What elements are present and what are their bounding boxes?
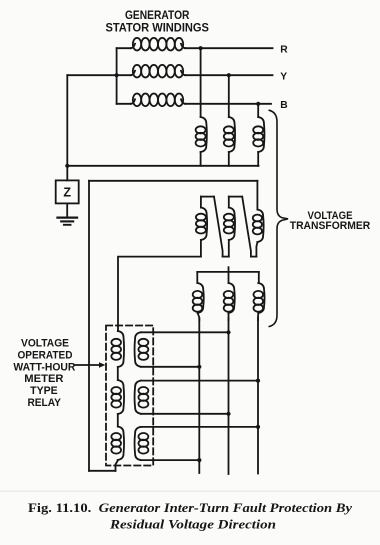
node coil2-top on B lead <box>256 379 260 383</box>
node coil2-bottom on Y lead <box>226 412 230 416</box>
wire relay coil 3 bottom lead <box>141 459 200 461</box>
relay residual coil 2 <box>111 380 124 414</box>
node B tap <box>256 102 260 106</box>
node Z junction <box>65 164 69 168</box>
node coil1-top on Y lead <box>226 330 230 334</box>
open delta diagonal 1 <box>214 197 223 257</box>
node coil1-bottom on R lead <box>197 365 201 369</box>
relay phase coil 3 <box>135 427 149 460</box>
wire open delta foot 2 <box>251 256 257 258</box>
generator star bus <box>116 48 118 104</box>
wire secondary lead Y <box>228 318 230 474</box>
VT secondary coil 2 <box>224 272 235 320</box>
wire relay coil 2 bottom lead <box>141 413 229 415</box>
generator winding R phase <box>117 38 273 51</box>
voltage transformer label <box>290 210 371 232</box>
svg-text:RELAY: RELAY <box>27 397 61 409</box>
relay residual coil 3 <box>111 427 124 471</box>
node star stub <box>228 267 230 272</box>
svg-text:Z: Z <box>63 186 71 200</box>
relay phase coil 2 <box>135 381 149 414</box>
wire relay residual link 1-2 <box>117 367 119 380</box>
VT secondary coil 3 <box>253 272 264 320</box>
ground <box>58 203 78 224</box>
svg-text:WATT-HOUR: WATT-HOUR <box>13 362 75 374</box>
wire secondary lead R <box>198 318 200 473</box>
VT primary coil Y <box>224 117 235 166</box>
relay residual coil 1 <box>111 331 124 367</box>
relay dashed box <box>106 326 153 466</box>
svg-text:TYPE: TYPE <box>30 385 58 397</box>
node coil3-top on B lead <box>256 425 260 429</box>
node Y tap <box>227 73 231 77</box>
wire Y drop <box>228 75 230 117</box>
generator winding Y phase <box>117 65 273 78</box>
wire relay coil 1 bottom lead <box>141 366 200 368</box>
VT secondary coil 1 <box>193 272 204 320</box>
wire open delta left end <box>118 257 201 331</box>
wire primary star line <box>67 165 258 167</box>
wire relay residual link 2-3 <box>117 414 119 427</box>
node R tap <box>199 46 203 50</box>
VT primary coil B <box>253 117 264 166</box>
svg-text:Residual Voltage Direction: Residual Voltage Direction <box>109 518 276 532</box>
node coil3-bottom on R lead <box>197 458 201 462</box>
wire residual return line <box>89 180 257 182</box>
open delta coil 2 <box>224 197 242 257</box>
generator stator windings label <box>105 8 209 35</box>
svg-text:Fig. 11.10. Generator Inter-Tu: Fig. 11.10. Generator Inter-Turn Fault P… <box>28 501 352 515</box>
wire B drop <box>257 104 259 117</box>
wire star point to left column <box>67 73 118 77</box>
svg-text:Y: Y <box>280 71 287 82</box>
wire secondary lead B <box>257 318 259 474</box>
voltage transformer brace <box>269 110 288 326</box>
svg-text:R: R <box>280 45 288 56</box>
caption <box>28 501 352 532</box>
relay phase coil 1 <box>135 332 149 367</box>
wire relay coil 2 top lead <box>141 380 258 382</box>
wire open delta foot 1 <box>223 256 229 258</box>
impedance Z <box>56 180 79 203</box>
svg-text:TRANSFORMER: TRANSFORMER <box>290 220 371 232</box>
svg-text:B: B <box>280 100 287 111</box>
wire relay coil 3 top lead <box>141 426 258 428</box>
relay label <box>13 337 75 409</box>
wire residual left drop <box>88 181 90 471</box>
svg-text:METER: METER <box>24 373 64 385</box>
wire R drop <box>200 48 202 117</box>
svg-text:VOLTAGE: VOLTAGE <box>21 337 69 349</box>
svg-text:STATOR WINDINGS: STATOR WINDINGS <box>105 21 209 35</box>
wire relay coil 1 top lead <box>141 331 229 333</box>
svg-text:OPERATED: OPERATED <box>18 350 73 362</box>
VT primary coil R <box>196 117 207 166</box>
wire relay residual bottom return <box>89 470 116 472</box>
generator winding B phase <box>117 94 271 107</box>
VT secondary star line <box>197 271 258 273</box>
wire left vertical to Z <box>66 75 68 180</box>
open delta coil 3 <box>253 181 264 257</box>
open delta coil 1 <box>196 197 214 257</box>
relay label arrow <box>75 362 105 368</box>
open delta diagonal 2 <box>242 197 251 257</box>
